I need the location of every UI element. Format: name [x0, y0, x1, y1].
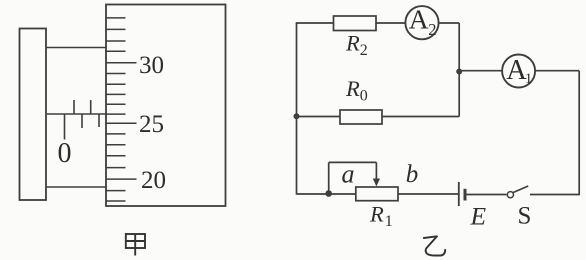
micrometer sleeve top line — [46, 47, 106, 49]
svg-text:30: 30 — [139, 52, 164, 79]
wire: R0 row left segment — [297, 116, 341, 118]
wire: slider arrow stem — [375, 162, 377, 180]
node: junction on left vertical (R0 row) — [294, 113, 300, 119]
wire: top row left segment — [296, 22, 334, 24]
thimble scale ticks — [106, 18, 137, 201]
wire: A2 to top-right corner — [439, 22, 459, 24]
svg-text:E: E — [470, 202, 487, 231]
micrometer datum reference line — [47, 113, 106, 115]
wire: right vertical — [578, 71, 580, 196]
svg-text:25: 25 — [139, 111, 164, 138]
svg-text:20: 20 — [141, 167, 166, 194]
micrometer thimble — [106, 5, 226, 207]
svg-text:A: A — [409, 3, 429, 34]
svg-text:0: 0 — [58, 138, 72, 169]
resistor R2 — [334, 16, 377, 31]
svg-text:1: 1 — [525, 71, 533, 87]
wire: battery to switch — [467, 194, 507, 196]
wire: right-mid vertical (top corner down to R0 row) — [458, 23, 460, 117]
wire: R2 to A2 — [376, 22, 406, 24]
wire: switch to right vertical — [530, 194, 579, 196]
node: slider branch junction — [325, 190, 332, 197]
wire: junction to A1 — [459, 70, 502, 72]
main scale half-mm tick — [90, 100, 92, 114]
wire: R0 row right segment — [382, 116, 459, 118]
resistor R0 — [340, 110, 382, 124]
wire: slider branch horizontal — [329, 161, 377, 163]
battery E long plate — [458, 182, 460, 206]
svg-text:b: b — [406, 161, 419, 188]
main scale mm tick — [81, 114, 83, 128]
wire: bottom row left segment — [297, 193, 356, 195]
label 甲 (drawn glyph) — [126, 234, 145, 256]
wire: A1 to right vertical — [535, 70, 579, 72]
switch S pivot circle — [507, 192, 513, 198]
wire: slider branch vertical up — [328, 162, 330, 193]
switch S lever — [513, 186, 528, 193]
micrometer frame (sleeve body) — [20, 29, 47, 201]
wire: R1 to battery — [398, 193, 459, 195]
svg-text:S: S — [518, 203, 532, 230]
rheostat R1 — [356, 187, 398, 201]
svg-text:a: a — [342, 160, 355, 189]
main scale half-mm tick — [73, 100, 75, 114]
node: junction of A1 branch — [456, 69, 462, 75]
ammeter A2 — [405, 6, 438, 39]
battery E short plate — [464, 189, 467, 201]
svg-text:2: 2 — [428, 20, 436, 39]
slider arrowhead — [373, 179, 380, 187]
main scale mm tick — [98, 114, 100, 127]
label 乙 (drawn glyph) — [424, 236, 445, 255]
wire: circuit left vertical — [296, 23, 298, 195]
ammeter A1 — [502, 55, 535, 88]
main scale mm tick 0 (long, labelled) — [64, 114, 66, 140]
micrometer sleeve bottom line — [46, 186, 106, 188]
